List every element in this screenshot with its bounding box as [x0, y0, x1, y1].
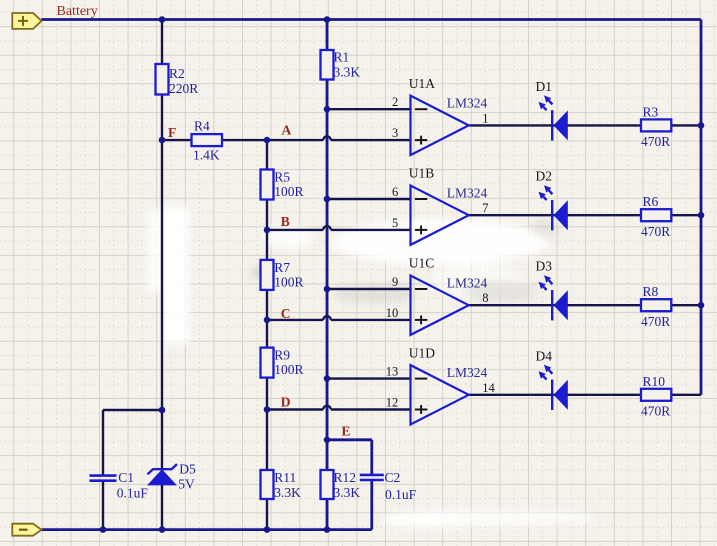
svg-text:5: 5 — [392, 216, 398, 230]
svg-text:D4: D4 — [536, 348, 553, 363]
svg-text:470R: 470R — [641, 314, 670, 329]
svg-text:1.4K: 1.4K — [193, 148, 220, 163]
svg-text:6: 6 — [392, 185, 398, 199]
svg-text:U1B: U1B — [409, 166, 435, 181]
svg-text:100R: 100R — [274, 362, 303, 377]
svg-text:R7: R7 — [274, 260, 290, 275]
svg-text:3.3K: 3.3K — [274, 485, 301, 500]
svg-text:D3: D3 — [536, 259, 553, 274]
svg-text:C1: C1 — [118, 470, 134, 485]
svg-text:R6: R6 — [643, 194, 659, 209]
svg-text:100R: 100R — [274, 184, 303, 199]
svg-text:5V: 5V — [178, 477, 195, 492]
svg-text:D2: D2 — [536, 169, 553, 184]
svg-text:D5: D5 — [179, 462, 196, 477]
svg-text:3.3K: 3.3K — [334, 485, 361, 500]
svg-text:12: 12 — [386, 396, 399, 410]
svg-text:R9: R9 — [274, 348, 290, 363]
svg-text:3: 3 — [392, 126, 398, 140]
svg-text:2: 2 — [392, 95, 398, 109]
svg-text:F: F — [168, 125, 176, 140]
svg-text:14: 14 — [482, 381, 495, 395]
svg-text:1: 1 — [482, 111, 488, 125]
svg-text:C2: C2 — [385, 470, 401, 485]
svg-text:LM324: LM324 — [447, 96, 488, 111]
svg-text:LM324: LM324 — [447, 185, 488, 200]
svg-text:470R: 470R — [641, 134, 670, 149]
svg-text:D: D — [281, 395, 291, 410]
svg-text:A: A — [282, 123, 292, 138]
svg-text:U1C: U1C — [409, 256, 435, 271]
svg-text:3.3K: 3.3K — [334, 65, 361, 80]
svg-text:R2: R2 — [169, 66, 185, 81]
svg-text:D1: D1 — [536, 79, 553, 94]
svg-text:LM324: LM324 — [447, 365, 488, 380]
svg-text:7: 7 — [482, 201, 488, 215]
svg-text:13: 13 — [386, 365, 399, 379]
svg-text:U1A: U1A — [409, 76, 435, 91]
svg-text:9: 9 — [392, 275, 398, 289]
svg-text:U1D: U1D — [409, 345, 435, 360]
svg-text:100R: 100R — [274, 275, 303, 290]
svg-text:R3: R3 — [643, 104, 659, 119]
svg-text:B: B — [281, 214, 290, 229]
svg-text:E: E — [342, 424, 351, 439]
svg-text:C: C — [281, 306, 291, 321]
svg-text:Battery: Battery — [57, 4, 98, 19]
svg-text:R8: R8 — [643, 284, 659, 299]
svg-text:8: 8 — [482, 291, 488, 305]
svg-text:R11: R11 — [274, 470, 296, 485]
svg-text:R12: R12 — [334, 470, 357, 485]
svg-text:R5: R5 — [274, 170, 290, 185]
svg-text:R10: R10 — [643, 374, 666, 389]
svg-text:470R: 470R — [641, 224, 670, 239]
svg-text:10: 10 — [386, 306, 399, 320]
svg-text:LM324: LM324 — [447, 275, 488, 290]
svg-text:R4: R4 — [194, 119, 210, 134]
svg-text:0.1uF: 0.1uF — [385, 487, 417, 502]
svg-text:0.1uF: 0.1uF — [117, 486, 149, 501]
svg-text:470R: 470R — [641, 403, 670, 418]
svg-text:R1: R1 — [334, 50, 350, 65]
svg-text:220R: 220R — [169, 81, 198, 96]
